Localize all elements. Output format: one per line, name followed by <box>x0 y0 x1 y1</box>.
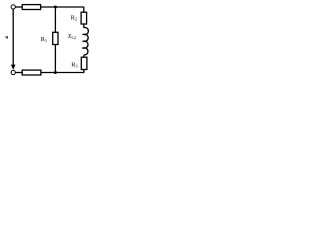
wire top-left <box>15 6 22 8</box>
resistor R1 (middle, vertical box) <box>53 32 58 44</box>
node (top junction) <box>54 6 57 9</box>
wire middle branch upper <box>54 7 56 32</box>
wire right branch bottom corner <box>41 70 84 73</box>
svg-text:u: u <box>5 35 8 41</box>
resistor (top, horizontal box) <box>22 5 40 10</box>
terminal (top left) <box>11 5 15 9</box>
resistor R2 (right, vertical box) <box>81 12 87 24</box>
svg-text:R1: R1 <box>41 36 47 43</box>
wire top <box>41 6 85 8</box>
wire right branch top corner <box>83 7 85 12</box>
wire bottom-left <box>15 72 22 74</box>
wire middle branch lower <box>54 45 56 73</box>
resistor (bottom, horizontal box) <box>22 70 41 75</box>
svg-text:R2: R2 <box>71 15 77 22</box>
svg-text:XL2: XL2 <box>67 33 76 40</box>
terminal (bottom left) <box>11 70 15 74</box>
resistor R3 (right lower, vertical box) <box>81 57 87 69</box>
svg-text:R3: R3 <box>71 62 78 69</box>
wire coil to R3 <box>83 55 85 57</box>
voltage arrow u (left) <box>12 9 14 65</box>
node (bottom junction) <box>54 71 57 74</box>
wire R2 to coil <box>83 24 85 28</box>
inductor L2 (coil, 4 bumps) <box>83 27 88 55</box>
background <box>0 0 92 81</box>
